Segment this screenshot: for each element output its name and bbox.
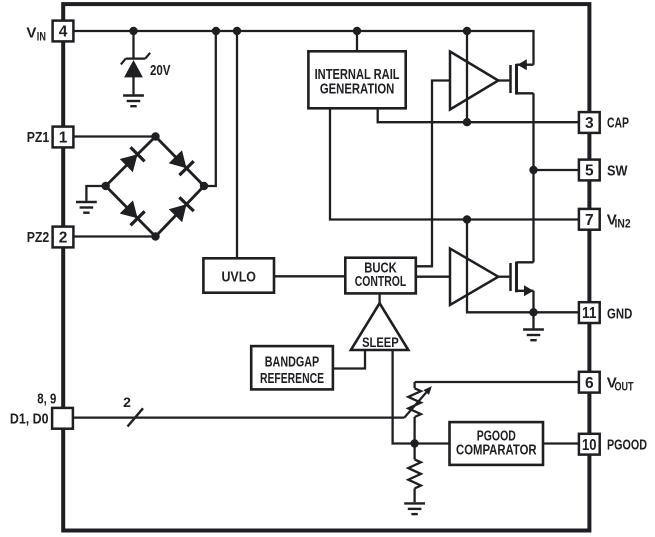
svg-text:7: 7 <box>585 212 594 229</box>
svg-text:4: 4 <box>59 24 68 41</box>
svg-text:PZ2: PZ2 <box>27 229 50 246</box>
svg-text:5: 5 <box>585 163 594 180</box>
svg-text:GND: GND <box>607 305 632 322</box>
svg-text:CAP: CAP <box>607 114 629 131</box>
svg-text:PZ1: PZ1 <box>27 129 50 146</box>
svg-text:6: 6 <box>585 375 594 392</box>
svg-text:10: 10 <box>582 437 597 454</box>
svg-text:3: 3 <box>585 115 594 132</box>
svg-text:2: 2 <box>123 394 131 410</box>
svg-text:REFERENCE: REFERENCE <box>260 371 324 387</box>
svg-text:SW: SW <box>607 163 628 180</box>
svg-text:GENERATION: GENERATION <box>320 82 395 98</box>
svg-text:D1, D0: D1, D0 <box>10 410 49 427</box>
svg-text:IN: IN <box>37 29 46 43</box>
svg-text:1: 1 <box>59 130 68 147</box>
svg-text:2: 2 <box>59 230 68 247</box>
svg-text:IN2: IN2 <box>615 216 631 230</box>
svg-text:PGOOD: PGOOD <box>607 436 647 453</box>
svg-text:SLEEP: SLEEP <box>362 334 399 350</box>
svg-text:OUT: OUT <box>615 379 634 393</box>
svg-text:BANDGAP: BANDGAP <box>265 355 320 371</box>
svg-text:V: V <box>26 25 36 42</box>
svg-text:11: 11 <box>582 305 597 322</box>
svg-text:8, 9: 8, 9 <box>37 390 56 407</box>
svg-text:CONTROL: CONTROL <box>355 274 407 290</box>
svg-text:20V: 20V <box>150 62 171 79</box>
svg-text:COMPARATOR: COMPARATOR <box>456 443 537 459</box>
svg-text:UVLO: UVLO <box>221 269 256 285</box>
